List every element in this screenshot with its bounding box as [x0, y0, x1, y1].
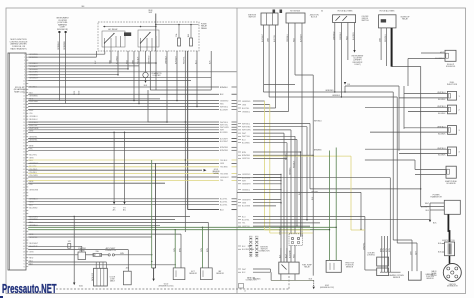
- svg-text:41: 41: [23, 172, 25, 174]
- anti-theft box: [123, 271, 131, 285]
- svg-text:BLK/RED: BLK/RED: [242, 249, 250, 251]
- row to oxygen sensor: [237, 177, 390, 179]
- svg-text:73: 73: [23, 266, 25, 268]
- wire group A: [28, 53, 105, 55]
- svg-text:67: 67: [23, 249, 25, 251]
- tps box: [326, 260, 341, 272]
- svg-text:35: 35: [23, 154, 25, 156]
- svg-text:WHT/BLK: WHT/BLK: [253, 279, 261, 281]
- row mid right: [237, 191, 361, 193]
- B3 wires: [334, 23, 336, 93]
- svg-text:ORN/RED: ORN/RED: [64, 41, 66, 50]
- svg-text:GRN/RED: GRN/RED: [333, 31, 335, 40]
- stub wires g4: [253, 199, 281, 201]
- svg-text:29: 29: [23, 137, 25, 139]
- svg-text:PANEL: PANEL: [201, 27, 207, 30]
- svg-text:66: 66: [23, 246, 25, 248]
- evap solenoid: [446, 166, 456, 178]
- junction dots texture: [185, 121, 186, 122]
- svg-text:INDICATOR): INDICATOR): [57, 28, 68, 31]
- svg-text:Pressauto.NET: Pressauto.NET: [2, 282, 57, 296]
- fuse F2: [190, 38, 193, 46]
- svg-text:65: 65: [23, 243, 25, 245]
- svg-text:GRN/WHT: GRN/WHT: [242, 184, 251, 186]
- injector 3: [448, 126, 457, 135]
- svg-text:A/C RELAY: A/C RELAY: [108, 28, 118, 31]
- svg-text:ORN: ORN: [268, 37, 270, 42]
- svg-text:GRN: GRN: [380, 37, 382, 42]
- svg-text:ORN: ORN: [29, 252, 34, 254]
- svg-text:M4: M4: [82, 6, 85, 8]
- svg-text:YEL/RED: YEL/RED: [220, 167, 228, 169]
- svg-text:SENSOR: SENSOR: [216, 273, 224, 275]
- svg-text:45: 45: [23, 184, 25, 186]
- g2 corner verticals: [309, 124, 311, 189]
- svg-text:CONTROL: CONTROL: [367, 255, 375, 257]
- ground arrow mid: [204, 169, 207, 172]
- wire group E yellow: [28, 159, 219, 161]
- stub wires g3: [253, 151, 301, 153]
- yellow verticals right panel: [264, 101, 266, 230]
- svg-text:BLU/GRN: BLU/GRN: [242, 206, 251, 208]
- svg-text:SWITCH: SWITCH: [248, 17, 256, 19]
- svg-text:BLU/RED: BLU/RED: [220, 132, 228, 134]
- svg-text:SENSOR: SENSOR: [346, 267, 354, 269]
- svg-text:18: 18: [23, 104, 25, 106]
- thick wire to coil: [448, 214, 449, 242]
- svg-text:CONNECTOR: CONNECTOR: [105, 250, 117, 252]
- wire group C dark: [28, 138, 219, 140]
- svg-text:RED/BLU: RED/BLU: [385, 34, 387, 42]
- svg-text:BRN/RED: BRN/RED: [314, 150, 322, 152]
- svg-text:WHT/BLU: WHT/BLU: [437, 148, 446, 150]
- svg-text:6: 6: [24, 69, 25, 71]
- fuel pump connector: [289, 234, 303, 246]
- svg-text:36: 36: [23, 157, 25, 159]
- svg-text:YEL: YEL: [29, 113, 33, 115]
- cluster wire 1: [58, 33, 60, 101]
- svg-text:WHT/YEL: WHT/YEL: [242, 136, 250, 138]
- svg-text:30: 30: [321, 11, 323, 13]
- svg-text:GRN/BLU: GRN/BLU: [242, 190, 251, 192]
- svg-text:WHT/RED: WHT/RED: [242, 127, 251, 129]
- svg-text:RED/WHT: RED/WHT: [29, 243, 39, 245]
- CB arrow: [344, 82, 346, 85]
- svg-text:BLK/WHT: BLK/WHT: [290, 250, 292, 258]
- data link connector: [94, 268, 108, 286]
- svg-text:43: 43: [23, 178, 25, 180]
- injector 2: [448, 105, 457, 114]
- small splice symbol: [68, 244, 71, 249]
- svg-text:DASH): DASH): [213, 172, 219, 175]
- svg-text:WHT/BLU: WHT/BLU: [314, 121, 322, 123]
- svg-text:IGNITION: IGNITION: [449, 284, 457, 286]
- svg-text:33: 33: [23, 148, 25, 150]
- svg-text:48: 48: [23, 193, 25, 195]
- svg-text:42: 42: [23, 175, 25, 177]
- junction block B2: [286, 13, 305, 23]
- wire group J bottom: [28, 245, 82, 247]
- svg-text:LIGHT): LIGHT): [355, 64, 361, 66]
- svg-text:BLU/WHT: BLU/WHT: [220, 109, 229, 111]
- svg-text:BLK/WHT: BLK/WHT: [220, 141, 229, 143]
- svg-text:BLU/BLK: BLU/BLK: [438, 113, 446, 115]
- svg-text:WHT/YEL: WHT/YEL: [29, 125, 37, 127]
- svg-text:28: 28: [23, 134, 25, 136]
- stub wires g6: [248, 245, 251, 247]
- svg-text:8: 8: [24, 75, 25, 77]
- svg-text:WHT/RED: WHT/RED: [29, 101, 38, 103]
- relay K2: [138, 30, 159, 47]
- svg-text:50: 50: [23, 199, 25, 201]
- idle-up solenoid: [445, 50, 456, 61]
- right long verticals: [286, 143, 288, 262]
- svg-text:YEL/GRN: YEL/GRN: [220, 173, 229, 175]
- svg-text:IGNITION COIL: IGNITION COIL: [442, 240, 455, 242]
- injector 1: [448, 91, 457, 100]
- svg-text:19: 19: [23, 107, 25, 109]
- svg-text:39: 39: [23, 166, 25, 168]
- svg-text:10: 10: [23, 81, 25, 83]
- svg-text:53: 53: [23, 207, 25, 209]
- svg-text:BLU/YEL: BLU/YEL: [220, 199, 227, 201]
- connector pins: [23, 54, 39, 268]
- svg-text:NEAR C100): NEAR C100): [14, 90, 25, 93]
- svg-text:RED: RED: [29, 258, 34, 260]
- green wires long: [28, 226, 336, 228]
- bus under relays: [150, 89, 211, 91]
- svg-text:70: 70: [23, 258, 25, 260]
- down arrow wires: [113, 132, 115, 202]
- svg-text:GRN: GRN: [242, 203, 247, 205]
- svg-text:49: 49: [23, 196, 25, 198]
- frame connector marks: [273, 10, 276, 14]
- svg-text:ORN/BLU: ORN/BLU: [29, 116, 38, 118]
- svg-text:BLK/WHT: BLK/WHT: [220, 138, 229, 140]
- svg-text:57: 57: [23, 219, 25, 221]
- svg-text:47: 47: [23, 190, 25, 192]
- svg-text:4: 4: [24, 63, 25, 65]
- fuel pump relay: [279, 262, 299, 274]
- svg-text:ORN/BLU: ORN/BLU: [242, 111, 251, 113]
- svg-text:BLK/WHT: BLK/WHT: [262, 33, 264, 42]
- svg-text:5: 5: [24, 66, 25, 68]
- svg-text:BRN: BRN: [29, 181, 34, 183]
- svg-text:COLOR: COLOR: [109, 277, 116, 279]
- grn red horizontals: [263, 91, 393, 93]
- svg-text:WHT/BLU: WHT/BLU: [242, 123, 251, 125]
- ground arrow bottom-left: [73, 254, 75, 282]
- svg-text:SENSOR: SENSOR: [393, 277, 401, 279]
- cam sensor feed verticals: [392, 92, 394, 240]
- svg-text:HOT AT ALL TIMES: HOT AT ALL TIMES: [338, 10, 354, 13]
- svg-text:BLK/YEL: BLK/YEL: [242, 108, 249, 110]
- svg-text:HOT AT ALL TIMES: HOT AT ALL TIMES: [380, 10, 396, 13]
- svg-text:RED/YEL: RED/YEL: [184, 56, 186, 64]
- svg-text:54: 54: [23, 210, 25, 212]
- svg-text:(ENGINE BLOCK): (ENGINE BLOCK): [320, 287, 334, 289]
- ground wires center-bottom: [151, 160, 153, 268]
- ignition connector pins: [250, 236, 252, 257]
- defog switch B3: [333, 15, 356, 23]
- svg-text:ORN/BLU: ORN/BLU: [287, 33, 289, 42]
- svg-text:27: 27: [23, 131, 25, 133]
- svg-text:61: 61: [23, 231, 25, 233]
- svg-text:16: 16: [23, 98, 25, 100]
- blk ground arrow: [429, 210, 431, 220]
- svg-text:62: 62: [23, 234, 25, 236]
- svg-text:YEL/BLK: YEL/BLK: [220, 160, 228, 162]
- svg-text:3: 3: [24, 60, 25, 62]
- horizontal supply jog: [295, 74, 313, 76]
- svg-text:GRN: GRN: [220, 163, 225, 165]
- svg-text:9: 9: [24, 78, 25, 80]
- svg-text:(ENGINE BLOCK): (ENGINE BLOCK): [159, 285, 174, 287]
- svg-text:GRN/RED: GRN/RED: [29, 95, 38, 97]
- svg-text:GRN/BLK: GRN/BLK: [332, 95, 341, 97]
- svg-text:J2: J2: [244, 291, 246, 293]
- iac wires: [364, 217, 366, 271]
- svg-text:YEL: YEL: [29, 184, 33, 186]
- svg-text:GRN/YEL: GRN/YEL: [242, 158, 250, 160]
- wire group B1: [28, 100, 219, 102]
- svg-text:15: 15: [23, 95, 25, 97]
- injector 4: [448, 147, 457, 156]
- B2 wires: [288, 23, 290, 112]
- wire group B2: [28, 121, 219, 123]
- svg-text:CONNECTOR: CONNECTOR: [259, 251, 271, 253]
- svg-text:32: 32: [23, 145, 25, 147]
- svg-text:BLU/YEL: BLU/YEL: [220, 202, 227, 204]
- heated oxygen sensor wires: [381, 236, 383, 272]
- svg-text:23: 23: [23, 119, 25, 121]
- svg-text:LIGHTER: LIGHTER: [153, 75, 161, 77]
- yellow wire right: [253, 155, 351, 157]
- svg-text:26: 26: [23, 128, 25, 130]
- svg-text:63: 63: [23, 237, 25, 239]
- svg-text:25: 25: [23, 125, 25, 127]
- relay drop wires: [96, 51, 98, 57]
- svg-text:44: 44: [23, 181, 25, 183]
- svg-text:G201: G201: [79, 286, 83, 288]
- cigarette lighter: [143, 72, 148, 77]
- svg-text:2: 2: [24, 57, 25, 59]
- svg-text:BLOCK: BLOCK: [311, 17, 318, 19]
- ignition switch box B1: [261, 13, 278, 25]
- svg-text:BLU/BLK: BLU/BLK: [438, 155, 446, 157]
- wire group H: [28, 215, 190, 217]
- svg-text:WHT: WHT: [149, 12, 153, 14]
- B4 wires: [380, 28, 382, 60]
- svg-text:BLU/YEL: BLU/YEL: [29, 154, 37, 156]
- power transistor: [444, 200, 460, 214]
- long vertical to starter relay: [73, 216, 75, 254]
- cluster wire 2: [65, 33, 67, 104]
- divider bottom bracket: [239, 284, 244, 289]
- svg-text:68: 68: [23, 252, 25, 254]
- svg-text:30: 30: [23, 140, 25, 142]
- camshaft sensor: [409, 271, 422, 280]
- staircase: [148, 90, 167, 122]
- svg-text:BRN/RED: BRN/RED: [242, 155, 251, 157]
- svg-text:52: 52: [23, 204, 25, 206]
- stub wires g3b: [253, 173, 281, 175]
- svg-text:WHT/BLU: WHT/BLU: [220, 106, 229, 108]
- svg-text:WHT/BLU: WHT/BLU: [437, 92, 446, 94]
- svg-text:69: 69: [23, 255, 25, 257]
- svg-text:RELAY: RELAY: [402, 18, 409, 21]
- svg-text:WHT/BLU: WHT/BLU: [437, 106, 446, 108]
- svg-text:WHT/BLU: WHT/BLU: [437, 126, 446, 128]
- svg-text:CODE: CODE: [110, 279, 115, 281]
- svg-text:SENSOR: SENSOR: [189, 273, 197, 275]
- svg-text:51: 51: [23, 202, 25, 204]
- svg-text:71: 71: [23, 261, 25, 263]
- svg-text:55: 55: [23, 213, 25, 215]
- IAT sensor: [201, 268, 213, 280]
- stub wires g7: [253, 268, 270, 270]
- svg-text:GRN: GRN: [29, 157, 34, 159]
- relay box dashed: [98, 22, 199, 51]
- svg-text:BLK/WHT: BLK/WHT: [175, 55, 177, 64]
- distributor: [443, 264, 461, 282]
- wire group D: [28, 146, 219, 148]
- svg-text:17: 17: [23, 101, 25, 103]
- svg-text:GRN/RED: GRN/RED: [242, 101, 251, 103]
- iac valve boxes: [377, 257, 389, 266]
- svg-text:7: 7: [24, 72, 25, 74]
- wire to idle solenoid: [392, 67, 421, 207]
- svg-text:58: 58: [23, 222, 25, 224]
- svg-text:GRN/WHT: GRN/WHT: [242, 199, 251, 201]
- svg-text:SP2: SP2: [68, 241, 71, 243]
- svg-text:GRN/ORN: GRN/ORN: [29, 190, 39, 192]
- svg-text:GRN/RED: GRN/RED: [325, 90, 334, 92]
- svg-text:BLU/YEL: BLU/YEL: [242, 220, 249, 222]
- svg-text:BLU/BLK: BLU/BLK: [438, 99, 446, 101]
- coil-distributor wire: [449, 256, 451, 264]
- svg-text:SOLENOID: SOLENOID: [446, 66, 456, 68]
- svg-text:21: 21: [23, 113, 25, 115]
- svg-text:11: 11: [23, 84, 25, 86]
- svg-text:RED/BLU: RED/BLU: [29, 119, 38, 121]
- extra rows above B1: [28, 86, 219, 88]
- panel divider: [236, 8, 238, 294]
- svg-text:64: 64: [23, 240, 25, 242]
- B1 wires: [262, 25, 264, 92]
- connector module block: [8, 53, 26, 270]
- svg-text:56: 56: [23, 216, 25, 218]
- cluster pins: [58, 31, 60, 33]
- wire group G: [28, 198, 219, 200]
- svg-text:BLU/RED: BLU/RED: [29, 207, 38, 209]
- short row right panel: [264, 84, 295, 86]
- ground bus bottom: [271, 279, 314, 281]
- svg-text:BLU/RED: BLU/RED: [242, 143, 250, 145]
- svg-text:SOLENOID: SOLENOID: [446, 183, 456, 185]
- svg-text:ORN/BLK: ORN/BLK: [165, 55, 167, 64]
- svg-text:TRANSISTOR: TRANSISTOR: [430, 196, 442, 199]
- relay K1: [102, 31, 125, 47]
- svg-text:46: 46: [23, 187, 25, 189]
- svg-text:BRN/BLK: BRN/BLK: [220, 87, 228, 89]
- svg-text:37: 37: [23, 160, 25, 162]
- relay box internal bus: [103, 26, 156, 28]
- ECT sensor: [173, 268, 185, 280]
- svg-text:GRN/WHT: GRN/WHT: [220, 177, 229, 179]
- svg-text:59: 59: [23, 225, 25, 227]
- relay feed wires: [280, 248, 282, 262]
- svg-text:22: 22: [23, 116, 25, 118]
- dlc wires: [95, 262, 97, 268]
- svg-text:BLU/YEL: BLU/YEL: [220, 205, 227, 207]
- starter relay: [78, 252, 86, 260]
- svg-text:GRN/YEL: GRN/YEL: [363, 243, 365, 250]
- svg-text:31: 31: [23, 143, 25, 145]
- dark L wire end: [188, 209, 219, 211]
- svg-text:34: 34: [23, 151, 25, 153]
- anti-theft connector pins: [102, 254, 108, 256]
- svg-text:ORN/BLU: ORN/BLU: [58, 41, 60, 50]
- svg-text:RELAY: RELAY: [304, 266, 310, 269]
- tps wires: [329, 151, 331, 261]
- svg-text:INJECTORS: INJECTORS: [447, 84, 458, 86]
- svg-text:72: 72: [23, 263, 25, 265]
- svg-text:RELAY: RELAY: [79, 249, 85, 252]
- svg-text:GRN/YEL: GRN/YEL: [242, 226, 250, 228]
- svg-text:BLU: BLU: [29, 160, 33, 162]
- svg-text:BLU/WHT: BLU/WHT: [421, 206, 430, 208]
- svg-text:SENSOR: SENSOR: [426, 278, 434, 280]
- cigarette lighter wire: [145, 51, 147, 72]
- svg-text:38: 38: [23, 163, 25, 165]
- svg-text:WHT/GRN: WHT/GRN: [242, 130, 251, 132]
- svg-text:GRN/BLK: GRN/BLK: [340, 31, 342, 40]
- svg-text:BLK/YEL: BLK/YEL: [274, 35, 276, 42]
- fuse 15A: [86, 254, 94, 256]
- svg-text:BLU/BLK: BLU/BLK: [438, 133, 446, 135]
- svg-text:ORN: ORN: [242, 104, 247, 106]
- svg-text:SWITCH: SWITCH: [361, 20, 369, 22]
- svg-text:YEL: YEL: [242, 223, 245, 225]
- svg-text:1: 1: [24, 54, 25, 56]
- thick black wire: [391, 28, 393, 67]
- stub wires g1: [253, 100, 265, 102]
- svg-text:20: 20: [23, 110, 25, 112]
- svg-text:BLK/RED: BLK/RED: [353, 32, 355, 40]
- svg-text:GRN/RED: GRN/RED: [220, 100, 229, 102]
- arrow to cluster: [353, 50, 355, 53]
- svg-text:BRN/RED: BRN/RED: [220, 147, 229, 149]
- svg-text:BLK/WHT: BLK/WHT: [301, 33, 303, 42]
- svg-text:24: 24: [23, 122, 25, 124]
- svg-text:GRN/RED: GRN/RED: [242, 174, 251, 176]
- fuse F1: [178, 38, 181, 46]
- svg-text:DISTRIBUTOR: DISTRIBUTOR: [447, 286, 459, 288]
- svg-text:HOT IN RUN: HOT IN RUN: [290, 11, 301, 13]
- svg-text:RADIO BRACKET): RADIO BRACKET): [10, 47, 26, 50]
- wire group I: [28, 233, 181, 235]
- svg-text:60: 60: [23, 228, 25, 230]
- svg-text:BRN/RED: BRN/RED: [220, 150, 229, 152]
- relay box feed wire: [155, 14, 157, 52]
- injector feed verticals: [398, 86, 400, 151]
- sunroof relay B4: [379, 15, 397, 28]
- right pin stubs: [238, 100, 241, 102]
- stub wires g5: [253, 216, 365, 218]
- svg-text:YEL: YEL: [220, 180, 223, 182]
- stub wires g2: [253, 123, 310, 125]
